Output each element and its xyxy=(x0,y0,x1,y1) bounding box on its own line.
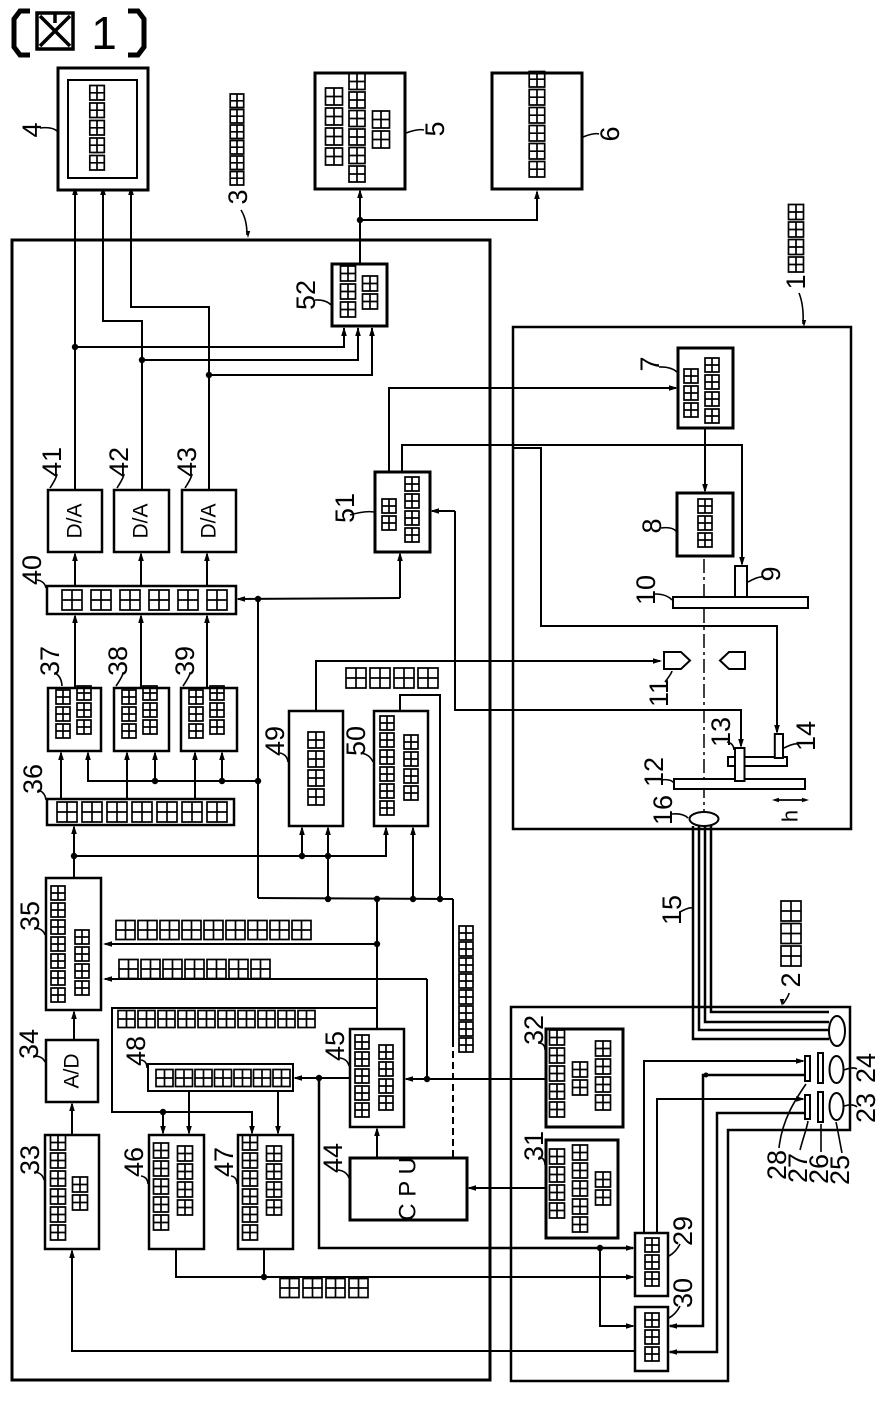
wire 48 to driver 47 xyxy=(277,1091,279,1133)
fiber bundle 15 xyxy=(693,826,829,1039)
svg-text:2: 2 xyxy=(776,972,806,987)
text sync39 xyxy=(189,690,203,738)
text switch circuit45 xyxy=(379,1045,393,1110)
wire CCD 28 to relay 30 xyxy=(670,1075,805,1326)
filter 26 xyxy=(818,1053,823,1083)
wire 51 to filter 9 xyxy=(402,445,742,564)
wire into 51 right edge xyxy=(432,510,455,512)
wire A/D 34 to 35 xyxy=(73,1012,75,1040)
svg-text:49: 49 xyxy=(260,726,290,756)
svg-text:4: 4 xyxy=(17,122,47,137)
wire lamp drive 7 to lamp 8 xyxy=(704,428,706,491)
wire 48 to driver 46 xyxy=(188,1091,190,1133)
wire tap G to encoder 52 xyxy=(142,328,358,360)
svg-text:8: 8 xyxy=(637,518,667,533)
leader 25 xyxy=(836,1122,842,1153)
title bracket right xyxy=(128,11,144,55)
wire CCD 27 to relay 30 xyxy=(670,1113,805,1352)
photo device 6 xyxy=(492,73,582,189)
wire 45 output up xyxy=(376,899,378,1029)
svg-text:48: 48 xyxy=(121,1036,151,1066)
svg-text:39: 39 xyxy=(170,646,200,676)
wire to 49 second input xyxy=(327,828,329,899)
svg-text:32: 32 xyxy=(519,1015,549,1045)
branch to relay 30 xyxy=(600,1248,633,1326)
optical axis xyxy=(703,559,705,812)
wire mux 36 to memory 38 xyxy=(126,753,128,799)
sync memory 39 xyxy=(181,688,237,751)
svg-text:51: 51 xyxy=(330,493,360,523)
multiplexer 36 xyxy=(47,799,234,825)
dimming circuit 49 xyxy=(289,711,343,826)
electronic shutter control circuit 50 xyxy=(374,711,428,826)
relay 29 xyxy=(635,1233,668,1296)
svg-text:44: 44 xyxy=(318,1143,348,1173)
svg-text:C P U: C P U xyxy=(395,1157,422,1221)
text mem39 xyxy=(210,686,224,734)
svg-text:38: 38 xyxy=(103,646,133,676)
text driver46 xyxy=(178,1146,193,1215)
svg-text:11: 11 xyxy=(644,679,674,707)
wire branch to photo device 6 xyxy=(360,192,537,220)
sync memory 38 xyxy=(114,688,169,751)
wire write to 39 xyxy=(221,753,223,781)
lens plate 12 xyxy=(674,779,805,789)
svg-text:52: 52 xyxy=(291,280,321,310)
mode switching circuit 45 xyxy=(350,1029,404,1127)
high sensitivity CCD driver 47 xyxy=(238,1135,293,1249)
CPU 44 xyxy=(350,1158,467,1220)
D/A 43 xyxy=(182,490,236,552)
prism 11 right xyxy=(720,652,745,669)
svg-text:1: 1 xyxy=(91,7,117,59)
svg-text:47: 47 xyxy=(209,1147,239,1177)
wire D/A43 to monitor 4 xyxy=(131,188,209,490)
svg-text:43: 43 xyxy=(172,447,202,477)
drive signal line xyxy=(176,1249,633,1277)
text filing xyxy=(349,74,365,183)
leader 26 xyxy=(820,1124,822,1152)
wire memory 39 to 40 xyxy=(206,616,208,688)
h movement arrow xyxy=(775,799,806,801)
text high ccd xyxy=(243,1135,258,1240)
label mode discrimination signal xyxy=(116,921,311,940)
wire tap to 49 xyxy=(301,828,303,856)
relay 30 xyxy=(635,1307,668,1371)
svg-text:34: 34 xyxy=(14,1029,44,1059)
wire 47 bottom xyxy=(263,1249,265,1277)
filter 9 xyxy=(735,566,747,601)
aperture bracket 13 xyxy=(728,757,787,766)
svg-text:46: 46 xyxy=(119,1147,149,1177)
text kanji observation monitor xyxy=(90,86,105,171)
mode switch 32 xyxy=(546,1029,623,1127)
D/A 42 xyxy=(114,490,169,552)
svg-text:41: 41 xyxy=(37,447,67,477)
text normal ccd xyxy=(154,1143,169,1230)
wire write to 38 xyxy=(154,753,156,781)
objective lens 23 xyxy=(830,1093,844,1120)
svg-text:30: 30 xyxy=(668,1278,698,1308)
text encode xyxy=(341,266,356,317)
wire to filter 14 xyxy=(513,448,777,732)
text hosei circuit xyxy=(75,930,89,995)
electronic shutter control line xyxy=(112,1008,377,1133)
text mode45 xyxy=(355,1035,369,1117)
text sync37 xyxy=(56,690,70,738)
color balance tap line to 50 xyxy=(74,828,386,856)
aperture pin 13 xyxy=(735,748,745,781)
filter 25 xyxy=(818,1092,823,1122)
scope info memory 31 xyxy=(546,1140,618,1238)
text lamp8 xyxy=(698,499,712,547)
label electronic shutter control signal xyxy=(118,1011,315,1028)
svg-text:28: 28 xyxy=(762,1150,792,1180)
A/D 34 xyxy=(46,1040,98,1102)
svg-text:A/D: A/D xyxy=(61,1053,84,1088)
text info memory xyxy=(573,1145,588,1232)
vertical junction line x=258 xyxy=(257,599,259,898)
color balance correction 35 xyxy=(46,878,101,1010)
memory write signal line xyxy=(105,978,427,980)
svg-text:37: 37 xyxy=(35,646,65,676)
normal CCD driver 46 xyxy=(149,1135,204,1249)
wire relay 30 to preprocess 33 xyxy=(72,1251,635,1351)
svg-text:31: 31 xyxy=(519,1131,549,1161)
svg-text:D/A: D/A xyxy=(64,503,87,538)
text driver47 xyxy=(267,1146,282,1215)
text relay30 xyxy=(645,1313,659,1361)
light source control circuit 51 xyxy=(375,472,430,552)
label scope model info xyxy=(459,926,473,1052)
svg-text:33: 33 xyxy=(15,1145,45,1175)
svg-text:5: 5 xyxy=(420,121,450,136)
text mem37 xyxy=(77,686,91,734)
leader 27 xyxy=(800,1121,808,1150)
text denshi shutter xyxy=(380,716,394,815)
svg-text:29: 29 xyxy=(668,1216,698,1246)
light source device 1 enclosure xyxy=(513,327,851,829)
text kirikae xyxy=(573,1062,588,1095)
svg-text:13: 13 xyxy=(706,717,736,747)
text image processing xyxy=(62,590,227,610)
wire mode switch 32 to 45 xyxy=(406,1078,546,1080)
svg-text:1: 1 xyxy=(781,274,811,289)
text circuit33 xyxy=(73,1177,88,1210)
lamp 8 xyxy=(677,493,733,556)
label memory write signal xyxy=(119,960,270,979)
wire relay 29 to CCD 28 xyxy=(644,1061,803,1233)
text ccd selector xyxy=(156,1070,290,1087)
wire 51 to lamp drive 7 xyxy=(389,388,676,472)
svg-text:6: 6 xyxy=(595,126,625,141)
CCD selector 48 xyxy=(148,1064,293,1091)
wire relay 29 to CCD 27 xyxy=(657,1099,803,1233)
sync memory 37 xyxy=(48,688,101,751)
D/A 41 xyxy=(48,490,102,552)
lamp drive circuit 7 xyxy=(678,348,733,428)
text scope xyxy=(550,1149,565,1218)
text seigyo circuit xyxy=(404,735,418,800)
wire 45 to CCD selector 48 xyxy=(295,1077,350,1079)
svg-text:40: 40 xyxy=(17,555,47,585)
encoder circuit 52 xyxy=(332,264,387,326)
wire 33 to A/D 34 xyxy=(71,1104,73,1135)
wire memory 38 to 40 xyxy=(140,616,142,688)
text drive circuit xyxy=(705,358,719,423)
wire 40 to D/A 43 xyxy=(206,554,208,586)
image processing circuit 40 xyxy=(47,586,236,614)
observation monitor 4 outer xyxy=(58,68,148,190)
svg-text:45: 45 xyxy=(320,1031,350,1061)
wire mux 36 to memory 39 xyxy=(194,753,196,799)
label drive signal xyxy=(280,1279,368,1298)
text digital xyxy=(326,88,343,165)
wire 35 to mux 36 xyxy=(73,827,75,878)
wire to 50 third input xyxy=(412,828,414,899)
wire down to aperture 13 xyxy=(455,511,741,746)
wire 50 output loop xyxy=(400,695,440,899)
wire memory 37 to 40 xyxy=(74,616,76,688)
CCD chip 27 xyxy=(805,1095,810,1119)
wire 40 to D/A 41 xyxy=(74,554,76,586)
text sync38 xyxy=(122,690,136,738)
wire tap R to encoder 52 xyxy=(75,328,344,347)
wire down to 32-45 line xyxy=(426,979,428,1079)
digital filing device 5 xyxy=(315,73,405,189)
objective lens 24 xyxy=(830,1056,844,1083)
wire scope memory 31 to CPU 44 xyxy=(469,1187,546,1189)
wire 40 to D/A 42 xyxy=(140,554,142,586)
wire D/A42 to monitor 4 xyxy=(103,188,142,490)
svg-text:10: 10 xyxy=(631,575,661,605)
mode ID signal line xyxy=(105,943,377,945)
wire tap B to encoder 52 xyxy=(209,328,372,375)
svg-text:3: 3 xyxy=(223,189,253,204)
CCD chip 28 xyxy=(805,1056,810,1081)
fiber exit ellipse xyxy=(829,1016,845,1046)
memory write line xyxy=(88,753,258,781)
text kansatsu mode xyxy=(550,1030,565,1117)
text soshi xyxy=(596,1172,611,1205)
text preprocess xyxy=(51,1135,66,1240)
condenser lens 16 xyxy=(690,812,719,826)
text color balance xyxy=(51,886,65,1002)
svg-text:9: 9 xyxy=(756,566,786,581)
scope info line upper xyxy=(452,899,454,1040)
svg-text:14: 14 xyxy=(791,721,821,751)
svg-text:42: 42 xyxy=(104,447,134,477)
lens plate 10 xyxy=(673,597,808,608)
text kougen xyxy=(382,499,396,530)
preprocess circuit 33 xyxy=(45,1135,99,1249)
text seigyo51 xyxy=(405,477,419,542)
text circuit xyxy=(363,276,378,309)
label dimming signal xyxy=(346,668,438,688)
text souchi xyxy=(373,111,390,148)
svg-text:50: 50 xyxy=(341,726,371,756)
text multiplexer xyxy=(57,802,227,822)
endoscope 2 enclosure (notched) xyxy=(511,1007,850,1381)
filter pin 14 xyxy=(775,734,783,758)
text relay29 xyxy=(645,1238,659,1286)
text lamp xyxy=(684,369,698,417)
svg-text:D/A: D/A xyxy=(198,503,221,538)
wire CPU 44 to 45 xyxy=(376,1129,378,1158)
text photo device xyxy=(529,72,545,178)
text mem38 xyxy=(143,686,157,734)
leader 28 xyxy=(779,1084,806,1148)
svg-text:16: 16 xyxy=(648,795,678,825)
title bracket left xyxy=(14,11,30,55)
text switch xyxy=(596,1041,611,1110)
wire up into 51 bottom xyxy=(399,554,401,598)
prism 11 left xyxy=(664,652,690,669)
horizontal line y=899 xyxy=(258,898,453,899)
wire mux 36 to memory 37 xyxy=(60,753,62,799)
text dimming circuit xyxy=(308,732,324,805)
svg-text:35: 35 xyxy=(15,901,45,931)
wire down and right to relay 29 xyxy=(319,1078,633,1248)
svg-text:23: 23 xyxy=(851,1093,881,1123)
svg-text:12: 12 xyxy=(639,757,669,787)
dimming line 49 to sensor 11 xyxy=(316,661,660,711)
scope info line lower dashed xyxy=(452,1040,454,1158)
svg-text:D/A: D/A xyxy=(130,503,153,538)
observation monitor 4 inner xyxy=(68,80,137,178)
signal processing device 3 enclosure xyxy=(12,240,490,1380)
svg-text:7: 7 xyxy=(635,356,665,371)
shutter branch to 46 xyxy=(162,1112,164,1133)
svg-text:36: 36 xyxy=(18,764,48,794)
title 図 glyph xyxy=(37,13,73,49)
wire D/A41 to monitor 4 xyxy=(74,188,76,490)
svg-text:h: h xyxy=(778,810,803,822)
mode line to image processor 40 xyxy=(238,598,400,599)
wire encoder 52 to filing device 5 xyxy=(359,191,361,264)
